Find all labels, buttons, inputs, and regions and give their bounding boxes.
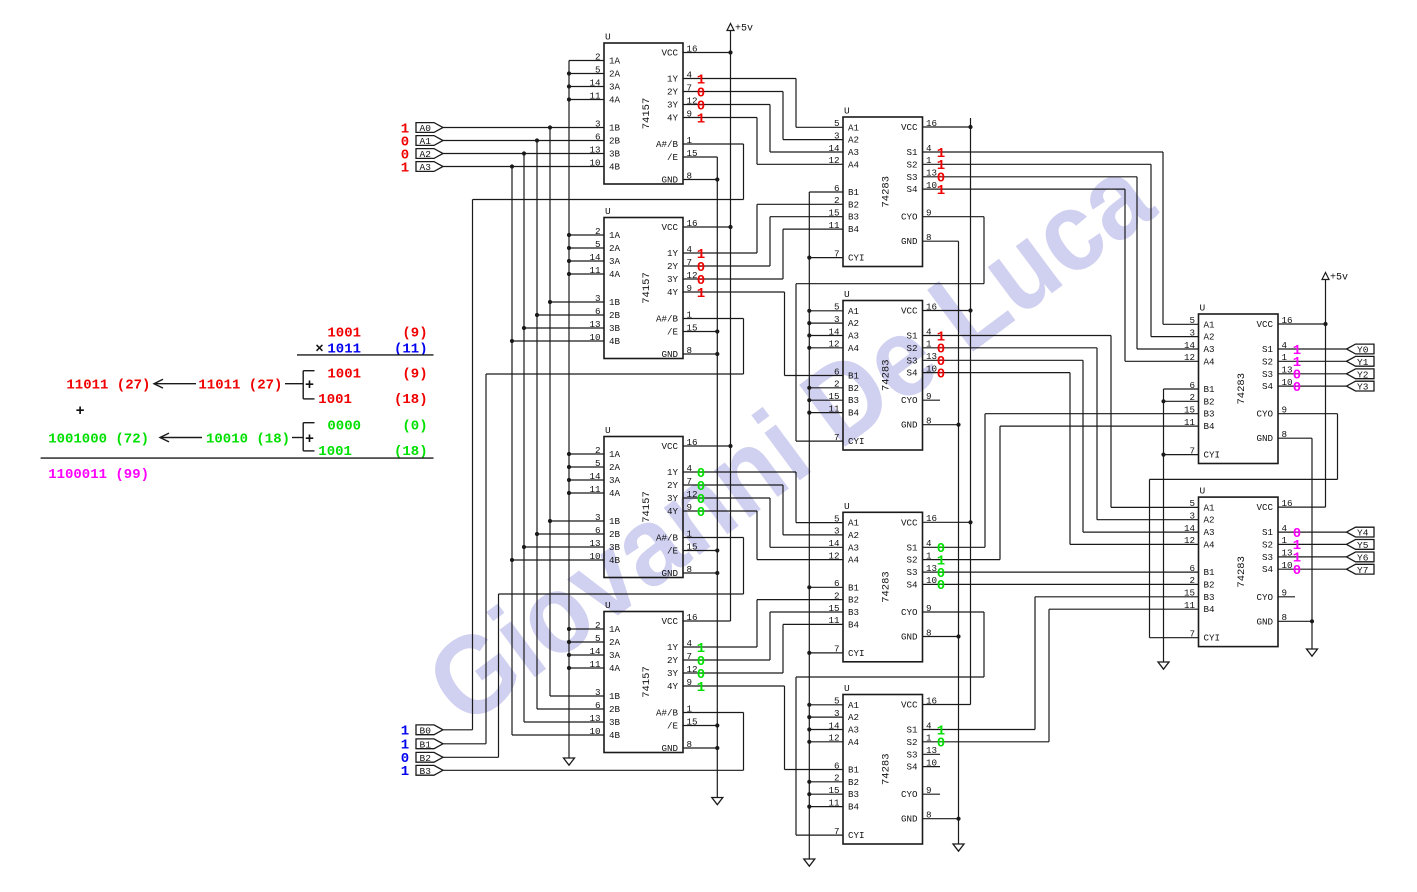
svg-text:1A: 1A xyxy=(609,624,621,635)
ground symbol (mux rail) xyxy=(712,798,723,805)
svg-text:3: 3 xyxy=(595,512,601,523)
svg-text:A4: A4 xyxy=(848,737,860,748)
svg-text:5: 5 xyxy=(595,633,601,644)
svg-text:16: 16 xyxy=(687,218,698,229)
wire U4.1Y to U7.B2 xyxy=(683,600,843,647)
svg-text:6: 6 xyxy=(834,183,840,194)
svg-text:16: 16 xyxy=(687,43,698,54)
wire U9.S2 to Y1 xyxy=(1278,360,1347,362)
svg-text:10: 10 xyxy=(589,157,600,168)
adder U6 74283 xyxy=(828,289,937,450)
wire net A3 (to 4B pins) xyxy=(443,164,604,735)
svg-text:CYO: CYO xyxy=(901,607,918,618)
svg-text:S2: S2 xyxy=(906,555,917,566)
svg-text:6: 6 xyxy=(595,525,601,536)
svg-text:9: 9 xyxy=(926,208,932,219)
svg-text:3: 3 xyxy=(834,314,840,325)
svg-text:1: 1 xyxy=(926,155,932,166)
svg-text:10: 10 xyxy=(589,332,600,343)
svg-text:1B: 1B xyxy=(609,123,621,134)
svg-text:2Y: 2Y xyxy=(667,87,679,98)
svg-text:5: 5 xyxy=(834,696,840,707)
svg-text:CYI: CYI xyxy=(848,648,865,659)
svg-text:14: 14 xyxy=(828,720,840,731)
svg-text:4B: 4B xyxy=(609,336,621,347)
svg-text:2: 2 xyxy=(595,445,601,456)
svg-text:B2: B2 xyxy=(848,383,859,394)
svg-text:12: 12 xyxy=(1184,352,1195,363)
svg-text:12: 12 xyxy=(828,550,839,561)
wire net B1 (select A#/B) xyxy=(443,319,744,744)
svg-text:10: 10 xyxy=(1282,377,1293,388)
ground symbol (right GND rail) xyxy=(1307,649,1318,656)
svg-text:9: 9 xyxy=(926,785,932,796)
value labels A inputs (1001) xyxy=(401,121,409,176)
svg-text:74283: 74283 xyxy=(880,571,892,603)
svg-text:S1: S1 xyxy=(1262,344,1274,355)
svg-text:A1: A1 xyxy=(848,306,860,317)
svg-text:A3: A3 xyxy=(848,725,859,736)
svg-text:8: 8 xyxy=(926,232,932,243)
svg-text:1001: 1001 xyxy=(318,392,352,408)
svg-text:4: 4 xyxy=(926,720,932,731)
svg-text:3: 3 xyxy=(1189,327,1195,338)
svg-text:S1: S1 xyxy=(906,147,918,158)
svg-text:15: 15 xyxy=(828,603,839,614)
svg-text:A1: A1 xyxy=(420,136,432,147)
svg-text:A3: A3 xyxy=(420,162,432,173)
svg-text:S2: S2 xyxy=(906,737,917,748)
svg-text:A3: A3 xyxy=(848,331,859,342)
svg-text:14: 14 xyxy=(589,77,601,88)
svg-text:B3: B3 xyxy=(848,789,859,800)
svg-text:7: 7 xyxy=(687,257,693,268)
svg-text:74157: 74157 xyxy=(641,491,653,523)
svg-text:2: 2 xyxy=(1189,392,1195,403)
svg-text:A2: A2 xyxy=(848,530,859,541)
svg-text:3Y: 3Y xyxy=(667,100,679,111)
svg-text:S4: S4 xyxy=(1262,564,1274,575)
multiplexer U3 74157 xyxy=(589,425,697,579)
svg-text:VCC: VCC xyxy=(1256,502,1273,513)
svg-text:9: 9 xyxy=(1282,405,1288,416)
svg-text:13: 13 xyxy=(926,745,937,756)
svg-text:2A: 2A xyxy=(609,69,621,80)
svg-text:VCC: VCC xyxy=(901,517,918,528)
svg-text:6: 6 xyxy=(1189,563,1195,574)
wire U10.S4 to Y7 xyxy=(1278,568,1347,570)
value labels U9 sums xyxy=(1293,343,1301,396)
svg-text:11: 11 xyxy=(589,659,601,670)
svg-text:A1: A1 xyxy=(848,122,860,133)
svg-text:3A: 3A xyxy=(609,82,621,93)
svg-text:8: 8 xyxy=(687,739,693,750)
svg-text:10: 10 xyxy=(926,180,937,191)
svg-text:1: 1 xyxy=(937,183,945,199)
svg-text:S3: S3 xyxy=(906,567,917,578)
svg-text:15: 15 xyxy=(687,148,698,159)
wire U3.4Y to U7.A4 xyxy=(683,511,843,560)
svg-text:A#/B: A#/B xyxy=(656,533,679,544)
svg-text:B2: B2 xyxy=(848,595,859,606)
svg-text:S1: S1 xyxy=(1262,527,1274,538)
output connector Y0 xyxy=(1347,344,1375,356)
svg-text:10: 10 xyxy=(589,551,600,562)
svg-text:A#/B: A#/B xyxy=(656,139,679,150)
input connector B3 xyxy=(416,765,443,777)
svg-text:11: 11 xyxy=(828,403,840,414)
svg-text:(18): (18) xyxy=(394,392,428,408)
wire U7.CYO to U8.CYI xyxy=(796,612,984,835)
input connector A1 xyxy=(416,136,443,148)
svg-text:3: 3 xyxy=(834,526,840,537)
wire net GND rail (final adders) xyxy=(1278,438,1314,649)
svg-text:9: 9 xyxy=(687,677,693,688)
svg-text:14: 14 xyxy=(589,471,601,482)
svg-text:13: 13 xyxy=(926,168,937,179)
svg-text:A2: A2 xyxy=(848,712,859,723)
svg-text:16: 16 xyxy=(926,118,937,129)
wire net logic-0 rail (final adder) xyxy=(1161,389,1198,662)
svg-text:A1: A1 xyxy=(848,700,860,711)
ground symbol (middle GND rail) xyxy=(953,844,964,851)
svg-text:B1: B1 xyxy=(1204,384,1216,395)
svg-text:S3: S3 xyxy=(906,172,917,183)
svg-text:10: 10 xyxy=(1282,560,1293,571)
svg-text:GND: GND xyxy=(901,632,918,643)
svg-text:15: 15 xyxy=(828,208,839,219)
svg-text:0: 0 xyxy=(1293,380,1301,396)
svg-text:15: 15 xyxy=(1184,405,1195,416)
svg-text:Y4: Y4 xyxy=(1357,528,1369,539)
svg-text:3: 3 xyxy=(1189,511,1195,522)
svg-text:3: 3 xyxy=(834,130,840,141)
svg-text:11: 11 xyxy=(1184,600,1196,611)
svg-text:A2: A2 xyxy=(1204,332,1215,343)
output connector Y2 xyxy=(1347,369,1375,381)
svg-text:GND: GND xyxy=(661,743,678,754)
svg-text:8: 8 xyxy=(1282,612,1288,623)
adder U7 74283 xyxy=(828,501,937,662)
svg-text:3A: 3A xyxy=(609,650,621,661)
svg-text:B1: B1 xyxy=(420,739,432,750)
value labels U3 outputs xyxy=(697,466,705,521)
svg-text:2B: 2B xyxy=(609,136,621,147)
svg-text:3B: 3B xyxy=(609,717,621,728)
input connector B2 xyxy=(416,752,443,764)
svg-text:4B: 4B xyxy=(609,555,621,566)
svg-text:2Y: 2Y xyxy=(667,480,679,491)
svg-text:13: 13 xyxy=(589,713,600,724)
svg-text:/E: /E xyxy=(667,152,679,163)
svg-text:13: 13 xyxy=(589,144,600,155)
wire U5.S3 to U9.A3 xyxy=(923,177,1199,349)
svg-text:U: U xyxy=(605,425,611,436)
svg-text:16: 16 xyxy=(926,513,937,524)
svg-text:3Y: 3Y xyxy=(667,493,679,504)
svg-text:GND: GND xyxy=(661,175,678,186)
svg-text:9: 9 xyxy=(926,391,932,402)
wire U7.S3 to U10.B1 xyxy=(923,571,1199,573)
svg-text:CYO: CYO xyxy=(901,212,918,223)
svg-text:16: 16 xyxy=(687,437,698,448)
svg-text:U: U xyxy=(844,501,850,512)
svg-text:5: 5 xyxy=(595,64,601,75)
svg-text:4: 4 xyxy=(687,69,693,80)
svg-text:B3: B3 xyxy=(848,395,859,406)
svg-text:A4: A4 xyxy=(1204,356,1216,367)
svg-text:B1: B1 xyxy=(848,765,860,776)
svg-text:9: 9 xyxy=(687,283,693,294)
svg-text:2: 2 xyxy=(834,379,840,390)
wire net GND rail (middle adders) xyxy=(923,241,961,844)
wire U10.S2 to Y5 xyxy=(1278,543,1347,545)
svg-text:2A: 2A xyxy=(609,243,621,254)
svg-text:GND: GND xyxy=(661,568,678,579)
wire U7.S4 to U10.B2 xyxy=(923,583,1199,585)
wire net mux A-inputs to ground xyxy=(567,61,604,759)
svg-text:8: 8 xyxy=(687,170,693,181)
svg-text:5: 5 xyxy=(834,513,840,524)
output connector Y5 xyxy=(1347,540,1375,552)
svg-text:74157: 74157 xyxy=(641,98,653,130)
input connector A0 xyxy=(416,123,443,135)
wire net A2 (to 3B pins) xyxy=(443,151,604,722)
svg-text:S4: S4 xyxy=(906,368,918,379)
multiplexer U2 74157 xyxy=(589,206,697,360)
svg-text:U: U xyxy=(605,600,611,611)
svg-text:U: U xyxy=(844,106,850,117)
svg-text:10: 10 xyxy=(926,363,937,374)
adder U8 74283 xyxy=(828,683,937,844)
svg-text:A4: A4 xyxy=(848,159,860,170)
svg-text:A1: A1 xyxy=(1204,319,1216,330)
svg-text:1: 1 xyxy=(926,339,932,350)
svg-text:7: 7 xyxy=(687,651,693,662)
output connector Y6 xyxy=(1347,552,1375,564)
svg-text:A1: A1 xyxy=(1204,502,1216,513)
svg-text:5: 5 xyxy=(834,118,840,129)
svg-text:1: 1 xyxy=(926,550,932,561)
output connector Y7 xyxy=(1347,564,1375,576)
svg-text:S2: S2 xyxy=(906,343,917,354)
svg-text:15: 15 xyxy=(687,716,698,727)
svg-text:S2: S2 xyxy=(1262,356,1273,367)
svg-text:12: 12 xyxy=(828,155,839,166)
value labels U7 sums xyxy=(937,541,945,594)
svg-text:7: 7 xyxy=(834,826,840,837)
svg-text:6: 6 xyxy=(834,578,840,589)
svg-text:1: 1 xyxy=(1282,352,1288,363)
svg-text:4A: 4A xyxy=(609,488,621,499)
svg-text:14: 14 xyxy=(589,252,601,263)
wire U9.S4 to Y3 xyxy=(1278,385,1347,387)
wire U10.S3 to Y6 xyxy=(1278,556,1347,558)
input connector B0 xyxy=(416,725,443,737)
value labels U1 outputs xyxy=(697,72,705,127)
svg-text:A3: A3 xyxy=(1204,527,1215,538)
input connector A3 xyxy=(416,162,443,174)
svg-text:B1: B1 xyxy=(848,187,860,198)
wire U1.1Y to U5.A1 xyxy=(683,79,843,128)
svg-text:74283: 74283 xyxy=(880,176,892,208)
svg-text:0000: 0000 xyxy=(327,419,361,435)
wire U5.S1 to U9.A1 xyxy=(923,152,1199,324)
svg-text:2Y: 2Y xyxy=(667,261,679,272)
adder U9 74283 xyxy=(1184,303,1293,464)
svg-text:S3: S3 xyxy=(1262,552,1273,563)
svg-text:16: 16 xyxy=(687,612,698,623)
svg-text:5: 5 xyxy=(834,302,840,313)
svg-text:S3: S3 xyxy=(906,749,917,760)
svg-text:1B: 1B xyxy=(609,516,621,527)
svg-text:11: 11 xyxy=(828,220,840,231)
svg-text:1001000 (72): 1001000 (72) xyxy=(48,431,149,447)
svg-text:14: 14 xyxy=(1184,340,1196,351)
wire U9.S1 to Y0 xyxy=(1278,348,1347,350)
svg-text:0: 0 xyxy=(937,736,945,752)
svg-text:/E: /E xyxy=(667,721,679,732)
svg-text:+: + xyxy=(305,377,314,394)
adder U10 74283 xyxy=(1184,486,1293,647)
svg-text:4A: 4A xyxy=(609,663,621,674)
wire net B0 (select A#/B) xyxy=(443,144,744,730)
svg-text:74283: 74283 xyxy=(1236,373,1248,405)
svg-text:15: 15 xyxy=(828,391,839,402)
svg-text:9: 9 xyxy=(687,502,693,513)
svg-text:B3: B3 xyxy=(848,607,859,618)
output connector Y1 xyxy=(1347,356,1375,368)
svg-text:Y7: Y7 xyxy=(1357,565,1368,576)
svg-text:B2: B2 xyxy=(848,199,859,210)
svg-text:4: 4 xyxy=(687,638,693,649)
svg-text:Y6: Y6 xyxy=(1357,553,1369,564)
svg-text:7: 7 xyxy=(1189,629,1195,640)
svg-text:U: U xyxy=(605,206,611,217)
svg-text:3: 3 xyxy=(595,687,601,698)
svg-text:7: 7 xyxy=(687,82,693,93)
svg-text:13: 13 xyxy=(926,351,937,362)
svg-text:1: 1 xyxy=(697,286,705,302)
svg-text:15: 15 xyxy=(828,785,839,796)
svg-text:1B: 1B xyxy=(609,691,621,702)
svg-text:12: 12 xyxy=(1184,535,1195,546)
value labels B inputs (1011) xyxy=(401,724,409,781)
svg-text:A4: A4 xyxy=(848,555,860,566)
svg-text:1001: 1001 xyxy=(327,326,361,342)
svg-text:10: 10 xyxy=(589,726,600,737)
svg-text:8: 8 xyxy=(687,345,693,356)
wire stub U8.S3 xyxy=(923,753,941,755)
svg-text:+: + xyxy=(305,431,314,448)
svg-text:11: 11 xyxy=(828,615,840,626)
svg-text:1A: 1A xyxy=(609,56,621,67)
svg-text:1: 1 xyxy=(926,733,932,744)
svg-text:7: 7 xyxy=(834,644,840,655)
wire U8.S2 to U10.B4 xyxy=(923,609,1199,742)
svg-text:GND: GND xyxy=(901,236,918,247)
svg-text:11: 11 xyxy=(589,265,601,276)
wire U6.S1 to U10.A1 xyxy=(923,336,1199,508)
svg-text:S4: S4 xyxy=(906,762,918,773)
svg-text:1B: 1B xyxy=(609,297,621,308)
svg-text:0: 0 xyxy=(937,578,945,594)
svg-text:A3: A3 xyxy=(848,147,859,158)
svg-text:14: 14 xyxy=(828,538,840,549)
svg-text:1: 1 xyxy=(401,764,409,780)
svg-text:6: 6 xyxy=(595,131,601,142)
svg-text:1: 1 xyxy=(687,528,693,539)
wire U1.2Y to U5.A2 xyxy=(683,92,843,140)
wire net +5V rail (final adders) xyxy=(1278,280,1328,508)
svg-text:(9): (9) xyxy=(402,367,427,383)
svg-text:B2: B2 xyxy=(848,777,859,788)
wire U9.CYO to U10.CYI xyxy=(1150,414,1338,638)
svg-text:2B: 2B xyxy=(609,704,621,715)
value labels U10 sums xyxy=(1293,526,1301,579)
wire U4.2Y to U7.B3 xyxy=(683,612,843,660)
svg-text:2B: 2B xyxy=(609,310,621,321)
svg-text:U: U xyxy=(844,289,850,300)
svg-text:B4: B4 xyxy=(848,802,860,813)
svg-text:1Y: 1Y xyxy=(667,74,679,85)
svg-text:/E: /E xyxy=(667,546,679,557)
svg-text:VCC: VCC xyxy=(1256,319,1273,330)
svg-text:8: 8 xyxy=(926,627,932,638)
output connector Y4 xyxy=(1347,527,1375,539)
svg-text:8: 8 xyxy=(687,564,693,575)
svg-text:74283: 74283 xyxy=(880,359,892,391)
svg-text:2: 2 xyxy=(595,51,601,62)
svg-text:3B: 3B xyxy=(609,149,621,160)
svg-text:4Y: 4Y xyxy=(667,506,679,517)
svg-text:14: 14 xyxy=(828,326,840,337)
svg-text:7: 7 xyxy=(687,476,693,487)
svg-text:4A: 4A xyxy=(609,95,621,106)
wire U4.4Y to U8.B1 xyxy=(683,686,843,770)
wire U5.CYO to U6.CYI xyxy=(796,217,984,441)
svg-text:14: 14 xyxy=(828,143,840,154)
value labels U4 outputs xyxy=(697,641,705,696)
svg-text:16: 16 xyxy=(926,301,937,312)
svg-text:CYI: CYI xyxy=(1204,450,1221,461)
svg-text:S3: S3 xyxy=(1262,369,1273,380)
svg-text:12: 12 xyxy=(828,339,839,350)
svg-text:7: 7 xyxy=(834,432,840,443)
svg-text:15: 15 xyxy=(687,322,698,333)
svg-text:B4: B4 xyxy=(848,408,860,419)
svg-text:B1: B1 xyxy=(848,371,860,382)
wire net +5V mux VCC rail xyxy=(683,31,733,622)
svg-text:1: 1 xyxy=(687,309,693,320)
svg-text:9: 9 xyxy=(1282,588,1288,599)
value labels U5 sums xyxy=(937,146,945,199)
svg-text:B3: B3 xyxy=(420,766,432,777)
svg-text:14: 14 xyxy=(1184,523,1196,534)
svg-text:2Y: 2Y xyxy=(667,655,679,666)
svg-text:13: 13 xyxy=(589,319,600,330)
svg-text:GND: GND xyxy=(901,814,918,825)
wire net mux /E+GND to ground rail xyxy=(683,157,719,798)
svg-text:4Y: 4Y xyxy=(667,113,679,124)
svg-text:2: 2 xyxy=(1189,575,1195,586)
value labels U6 sums xyxy=(937,329,945,382)
wire U5.S2 to U9.A2 xyxy=(923,164,1199,336)
svg-text:S1: S1 xyxy=(906,331,918,342)
svg-text:B4: B4 xyxy=(848,619,860,630)
svg-text:CYI: CYI xyxy=(848,436,865,447)
svg-text:(0): (0) xyxy=(402,419,427,435)
